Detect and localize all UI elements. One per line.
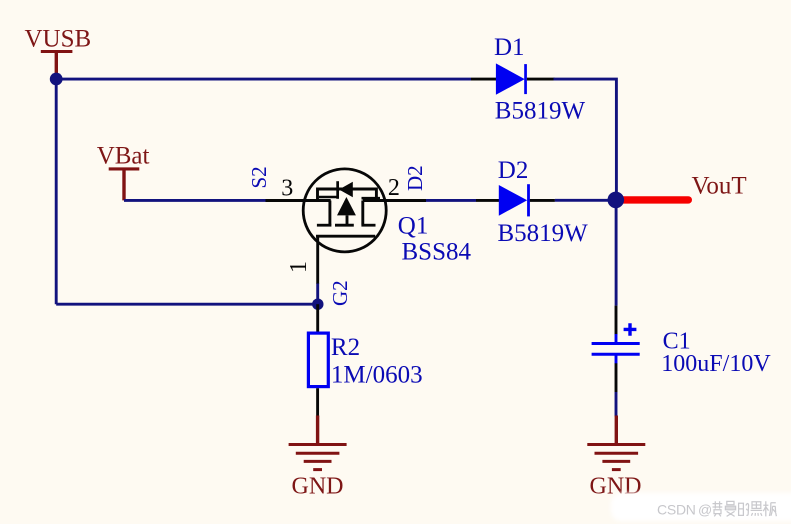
Q1 gate bar (316, 235, 375, 238)
svg-text:1M/0603: 1M/0603 (331, 361, 423, 388)
svg-text:VBat: VBat (97, 142, 150, 169)
Q1 source inner stub (319, 196, 337, 199)
svg-text:S2: S2 (247, 166, 271, 188)
pin number 1 (286, 261, 312, 273)
VUSB stem (55, 53, 58, 75)
D1 cathode pin (527, 78, 555, 81)
D2 cathode pin (530, 199, 555, 202)
GND left bar 3 (304, 460, 332, 463)
Q1 body-diode cathode bar (336, 181, 339, 199)
watermark char ban (763, 501, 776, 516)
svg-text:3: 3 (281, 176, 293, 202)
Q1 source channel bar (328, 201, 331, 225)
transistor Q1 (247, 165, 471, 306)
Q1 channel segment left (317, 224, 332, 227)
D1 cathode bar (524, 64, 527, 94)
D2 cathode bar (527, 184, 530, 216)
Q1 body-diode triangle (339, 182, 353, 197)
svg-text:B5819W: B5819W (495, 98, 586, 125)
wire Q1 drain to D2 (426, 199, 476, 202)
svg-text:D2: D2 (403, 165, 427, 191)
R2 body rectangle (308, 333, 328, 387)
svg-text:@: @ (698, 502, 712, 518)
wire D2 to VouT node (555, 199, 617, 202)
svg-text:B5819W: B5819W (498, 220, 589, 247)
C1 bottom plate (592, 353, 640, 356)
GND left stem (316, 416, 319, 444)
svg-text:GND: GND (292, 474, 344, 500)
Q1 source pin (266, 199, 331, 202)
GND right bar 1 (587, 443, 645, 446)
svg-text:D1: D1 (494, 34, 525, 61)
wire bottom horizontal to gate (56, 303, 318, 306)
C1 plus sign (624, 323, 637, 336)
watermark char hei (751, 502, 763, 516)
watermark char de (739, 503, 749, 515)
diode D2 (476, 157, 588, 247)
watermark band (611, 493, 791, 521)
wire VBat to Q1 source (124, 199, 266, 202)
C1 bottom pin (615, 363, 618, 392)
VBat bar symbol (109, 167, 140, 170)
svg-text:Q1: Q1 (398, 213, 429, 240)
node VouT junction (608, 192, 625, 209)
wire gate pin to junction (316, 284, 319, 305)
C1 top lead stub (615, 334, 618, 343)
GND left bar 4 (313, 468, 322, 471)
watermark text (657, 501, 776, 517)
svg-text:100uF/10V: 100uF/10V (661, 351, 771, 377)
svg-text:1: 1 (286, 261, 312, 273)
Q1 channel segment middle (335, 224, 354, 227)
Q1 body-diode bridge (318, 189, 377, 201)
GND right bar 2 (595, 452, 639, 455)
capacitor C1 (592, 306, 772, 392)
svg-text:R2: R2 (331, 334, 360, 361)
GND right bar 3 (602, 460, 630, 463)
D1 triangle (496, 63, 525, 94)
Q1 gate pin (316, 236, 319, 284)
wire C1 to GND (615, 392, 618, 417)
svg-text:CSDN: CSDN (657, 502, 696, 518)
wire VouT node down to C1 (615, 200, 618, 305)
power port VUSB (25, 25, 92, 74)
Q1 drain inner stub (362, 197, 381, 200)
VUSB bar symbol (41, 50, 73, 53)
C1 bottom lead stub (615, 356, 618, 364)
wire VUSB top horizontal (56, 78, 471, 81)
pin name D2 (403, 165, 427, 191)
svg-text:BSS84: BSS84 (402, 238, 472, 265)
pin name G2 (328, 280, 352, 306)
net VouT red stub (622, 196, 689, 203)
ground GND right (587, 416, 645, 500)
Q1 substrate arrow (337, 197, 356, 215)
GND right bar 4 (612, 468, 621, 471)
node VUSB junction (50, 73, 63, 86)
wire R2 to GND (316, 388, 319, 417)
svg-text:VouT: VouT (692, 173, 747, 200)
watermark char fei (713, 501, 723, 516)
wire D1 to corner (554, 79, 617, 200)
node gate junction (312, 299, 323, 310)
Q1 substrate stem (346, 215, 349, 225)
power port VBat (97, 142, 150, 200)
svg-text:2: 2 (388, 175, 400, 201)
C1 top pin (615, 306, 618, 335)
GND left bar 1 (289, 443, 347, 446)
resistor R2 (308, 333, 422, 388)
D1 anode pin (471, 78, 496, 81)
svg-text:D2: D2 (498, 157, 529, 184)
GND right stem (615, 416, 618, 444)
Q1 body circle (303, 169, 386, 252)
ground GND left (289, 416, 347, 500)
pin name S2 (247, 166, 271, 188)
svg-text:G2: G2 (328, 280, 352, 306)
Q1 channel segment right (361, 224, 375, 227)
Q1 drain pin (363, 199, 426, 202)
VBat stem (122, 170, 125, 200)
GND left bar 2 (296, 452, 340, 455)
C1 top plate (592, 342, 640, 345)
svg-text:VUSB: VUSB (25, 25, 92, 52)
wire gate to R2 (316, 304, 319, 331)
watermark char man (725, 501, 735, 516)
diode D1 (471, 34, 585, 125)
wire VUSB left vertical (55, 79, 58, 304)
D2 triangle (499, 185, 527, 216)
Q1 drain channel bar (361, 201, 364, 225)
D2 anode pin (476, 199, 499, 202)
